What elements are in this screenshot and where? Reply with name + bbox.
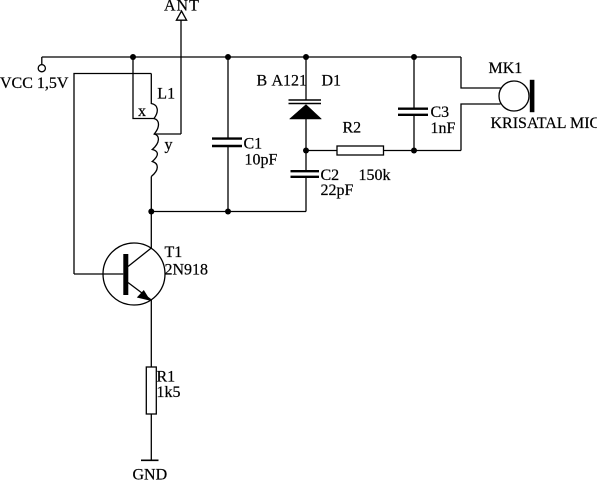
svg-text:B: B [257,73,268,90]
transistor T1 emitter arrow [137,290,151,301]
node junction dot (414,57) [411,54,417,60]
svg-text:y: y [165,137,173,154]
capacitor C2 wire top [305,151,307,171]
antenna ANT symbol [176,11,186,20]
terminal VCC circle [38,65,45,72]
wire bottom rail [151,211,306,213]
capacitor C3 wire top [413,57,415,108]
diode D1 cathode double bars [289,99,322,101]
svg-text:GND: GND [133,467,168,480]
svg-text:C1: C1 [244,136,263,153]
resistor R1 body [146,367,156,414]
svg-text:L1: L1 [157,86,175,103]
svg-text:R2: R2 [343,120,362,137]
wire emitter vertical [150,300,152,367]
svg-text:D1: D1 [322,73,342,90]
capacitor C2 plates [291,170,320,172]
wire mid rail R2 row [306,150,337,152]
svg-text:C3: C3 [431,104,450,121]
ground bar [141,459,159,461]
svg-text:x: x [138,103,146,120]
capacitor C1 [227,57,229,138]
node junction dot (228,57) [225,54,231,60]
wire antenna to coil tap y [154,133,181,135]
wire antenna vertical [180,20,182,134]
svg-text:1nF: 1nF [431,120,456,137]
wire feedback loop top [74,74,151,275]
node junction dot (151,211) [148,209,154,215]
resistor R2 body [337,146,384,155]
svg-text:T1: T1 [165,244,183,261]
wire top supply rail [42,56,461,58]
transistor T1 emitter lead [128,283,151,301]
wire rail to inductor tap x [133,57,154,119]
capacitor C3 wire bottom [413,116,415,151]
wire R1 to ground [150,414,152,460]
transistor T1 circle [103,243,165,305]
svg-text:10pF: 10pF [245,152,278,169]
svg-text:KRISATAL MIC: KRISATAL MIC [491,115,597,132]
transistor T1 base bar [123,254,128,295]
node junction dot (306,150.5) [303,148,309,154]
wire mic lower to mid rail [461,104,501,151]
node junction dot (306,57) [303,54,309,60]
microphone MK1 bar [530,80,535,112]
wire R2 to C3 node [384,150,462,152]
inductor L1 [151,74,158,177]
svg-text:22pF: 22pF [321,182,354,199]
diode wire bottom [305,119,307,151]
svg-text:MK1: MK1 [489,60,523,77]
svg-text:ANT: ANT [164,0,200,15]
diode D1 BA121 wire top [305,57,307,100]
wire rail to mic upper [461,57,501,88]
microphone MK1 circle [499,81,529,111]
wire collector vertical [150,177,152,249]
wire VCC stub [41,57,43,65]
svg-text:A121: A121 [272,73,308,90]
node junction dot (228,211) [225,209,231,215]
capacitor C2 wire bottom [305,178,307,212]
svg-text:2N918: 2N918 [165,262,209,279]
capacitor C3 plates [398,107,428,109]
node junction dot (414,150.5) [411,148,417,154]
svg-text:R1: R1 [157,369,176,386]
svg-text:150k: 150k [359,167,391,184]
diode D1 triangle [290,105,322,120]
transistor T1 collector lead [128,248,151,267]
svg-text:VCC 1,5V: VCC 1,5V [0,75,69,92]
node junction dot (133,57) [130,54,136,60]
svg-text:1k5: 1k5 [157,384,181,401]
wire base [74,273,123,275]
